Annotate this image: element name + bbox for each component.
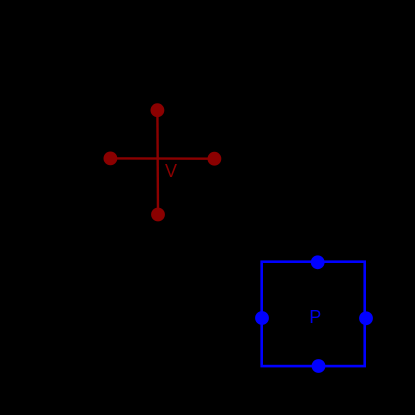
svg-text:V: V — [165, 161, 177, 181]
svg-text:P: P — [309, 307, 321, 327]
